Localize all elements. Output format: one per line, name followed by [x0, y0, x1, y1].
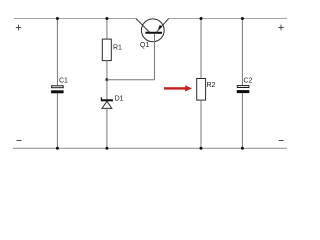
wire R1 column top: [106, 19, 108, 40]
resistor R1: [102, 39, 111, 61]
wire base to junction node: [107, 79, 155, 81]
svg-text:C1: C1: [59, 78, 68, 85]
terminal - output: [279, 140, 284, 142]
terminal + output: [278, 25, 283, 30]
wire D1 to bottom rail: [106, 108, 108, 148]
wire R1 bottom to node: [106, 60, 108, 79]
terminal - input: [17, 140, 22, 142]
svg-text:Q1: Q1: [140, 42, 149, 49]
transistor Q1 (PNP pass transistor): [136, 19, 169, 50]
wire C2 column: [241, 19, 243, 86]
node bottom rail C2: [241, 147, 244, 150]
svg-text:C2: C2: [244, 78, 253, 85]
svg-text:R1: R1: [113, 45, 122, 52]
resistor R2: [197, 79, 206, 101]
capacitor C2 (polarized): [237, 86, 249, 88]
wire bottom rail (- rail): [13, 147, 287, 149]
terminal + input: [16, 25, 21, 30]
wire R2 column top: [200, 19, 202, 79]
wire top rail right segment (output + rail): [169, 18, 287, 20]
node bottom rail D1: [105, 147, 108, 150]
node top rail R1: [105, 17, 108, 20]
node top rail C1: [56, 17, 59, 20]
red arrow pointer at R2: [164, 85, 192, 91]
diode D1 (zener): [101, 95, 124, 108]
svg-text:R2: R2: [207, 82, 216, 89]
wire C1 column: [56, 19, 58, 86]
capacitor C1 (polarized): [52, 86, 64, 88]
wire Q1 base lead down: [154, 34, 156, 80]
svg-text:D1: D1: [115, 95, 124, 102]
node bottom rail R2: [200, 147, 203, 150]
wire node to D1: [106, 80, 108, 100]
node top rail R2: [200, 17, 203, 20]
node base junction: [105, 78, 108, 81]
node top rail C2: [241, 17, 244, 20]
wire top rail left segment (input + rail): [14, 18, 136, 20]
wire R2 bottom: [200, 100, 202, 148]
node bottom rail C1: [56, 147, 59, 150]
